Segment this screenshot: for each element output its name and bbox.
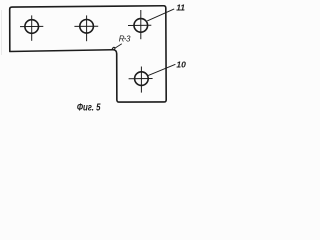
leader line with arrowhead to fillet R3 — [115, 44, 122, 48]
scan artifact left edge — [1, 10, 3, 55]
svg-text:10: 10 — [176, 59, 186, 69]
leader line to label 11 — [147, 9, 174, 21]
hole H2 crosshair — [74, 15, 98, 41]
svg-text:11: 11 — [176, 3, 185, 13]
hole H4 crosshair — [129, 67, 153, 93]
leader line to label 10 — [147, 64, 175, 76]
hole H3 crosshair — [128, 10, 151, 39]
svg-text:R: R — [119, 35, 125, 44]
svg-text:3: 3 — [126, 35, 131, 44]
svg-text:Фиг. 5: Фиг. 5 — [77, 102, 101, 113]
plate outline (L-shaped bracket) — [10, 6, 167, 102]
hole H1 crosshair — [20, 15, 43, 40]
